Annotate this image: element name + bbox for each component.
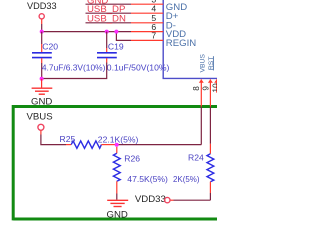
svg-text:R25: R25 [60,134,76,144]
junction dot at R25/R26 [115,143,119,147]
svg-text:22.1K(5%): 22.1K(5%) [98,135,139,145]
wire R25 to pin8 corner [117,144,202,146]
wire C19 bottom to GND junction [42,63,107,79]
wire pin5 USB_DN net [86,22,164,24]
wire pin4 USB_DP net [86,12,164,14]
IC U1 (USB interface chip) border [163,0,218,78]
svg-text:4.7uF/6.3V(10%): 4.7uF/6.3V(10%) [42,63,106,73]
capacitor C19 [97,32,117,63]
power port VDD33 (bottom) [135,194,170,205]
svg-text:R26: R26 [124,153,140,163]
junction dot at C19 top [105,30,109,34]
IC pin 10 with arrow [214,79,219,92]
ground symbol (bottom) [107,200,128,206]
svg-text:VBUS: VBUS [199,54,206,73]
IC pin 8 (VBUS) with arrow [199,79,204,144]
wire R24 bottom to VDD33 port [170,199,210,201]
wire VDD33 to pin6 VDD [42,31,164,33]
svg-text:C20: C20 [42,41,58,51]
ground symbol (top) [32,79,53,94]
svg-text:VBUS: VBUS [27,111,53,122]
svg-text:VDD33: VDD33 [27,1,57,11]
resistor R24 (vertical) [207,144,214,200]
svg-text:C19: C19 [108,41,124,51]
power port VBUS [27,111,67,144]
wire jog to pin7 REGIN [116,32,163,41]
resistor R26 (vertical) [113,147,120,200]
junction dot at VDD33 [40,30,44,34]
wire pin3 GND net [86,3,164,5]
svg-text:GND: GND [107,210,128,221]
svg-text:9: 9 [201,86,210,91]
svg-text:4: 4 [151,4,156,14]
svg-text:REGIN: REGIN [166,38,196,49]
green region border [13,107,218,221]
svg-text:47.5K(5%): 47.5K(5%) [127,174,168,184]
power port VDD33 (top) [27,1,57,32]
capacitor C20 [32,32,52,79]
junction dot at GND [40,77,44,81]
junction dot at REGIN jog [114,30,118,34]
svg-text:7: 7 [151,31,156,41]
svg-text:10: 10 [211,83,217,93]
svg-text:VDD33: VDD33 [135,194,166,205]
svg-text:USB_DN: USB_DN [87,14,126,25]
svg-text:8: 8 [192,86,201,91]
resistor R25 (horizontal) [66,141,117,148]
svg-text:2K(5%): 2K(5%) [173,174,200,184]
svg-text:0.1uF/50V(10%): 0.1uF/50V(10%) [107,63,170,73]
IC pin 9 (RST) with arrow [208,79,213,144]
svg-text:R24: R24 [188,152,204,162]
pin name RST (rotated, with overbar) [208,56,215,70]
